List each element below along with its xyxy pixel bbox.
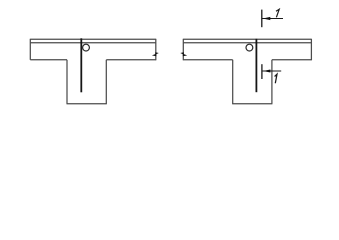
- left T-beam web right edge: [105, 60, 107, 104]
- left T-beam right broken edge: [155, 39, 157, 61]
- section mark 1 bottom leader line: [262, 70, 281, 72]
- left rebar circle: [83, 44, 90, 51]
- section mark 1 bottom arrowhead: [263, 70, 271, 73]
- right break mark upper flag: [180, 52, 184, 54]
- left T-beam flange bottom right segment: [106, 59, 156, 61]
- right rebar circle: [246, 44, 253, 51]
- section mark 1 top arrowhead: [263, 17, 271, 20]
- left T-beam flange top line: [30, 38, 156, 40]
- left rebar vertical bar: [80, 38, 82, 92]
- right T-beam flange bottom right segment: [272, 59, 312, 61]
- section mark 1 top tick: [261, 10, 263, 28]
- section mark 1 top leader line: [262, 18, 283, 20]
- right T-beam web right edge: [271, 60, 273, 104]
- right T-beam web bottom: [232, 103, 272, 105]
- left T-beam flange bottom left segment: [30, 59, 67, 61]
- right T-beam right edge: [310, 39, 312, 61]
- right T-beam web left edge: [232, 60, 234, 104]
- section mark 1 bottom tick: [261, 64, 263, 79]
- left T-beam web bottom: [67, 103, 107, 105]
- right T-beam flange inner line: [183, 42, 311, 44]
- section mark 1 bottom label "1": [275, 74, 277, 83]
- right break mark lower flag: [183, 54, 187, 57]
- right T-beam flange bottom left segment: [183, 59, 232, 61]
- left T-beam flange inner line: [30, 42, 156, 44]
- left T-beam left edge: [29, 39, 31, 60]
- right T-beam flange top line: [183, 38, 311, 40]
- section mark 1 top label "1": [276, 9, 279, 17]
- right rebar vertical bar: [255, 39, 257, 92]
- right T-beam left broken edge: [182, 39, 184, 61]
- left break mark lower flag: [152, 54, 156, 57]
- left break mark upper flag: [155, 52, 159, 54]
- left T-beam web left edge: [66, 60, 68, 104]
